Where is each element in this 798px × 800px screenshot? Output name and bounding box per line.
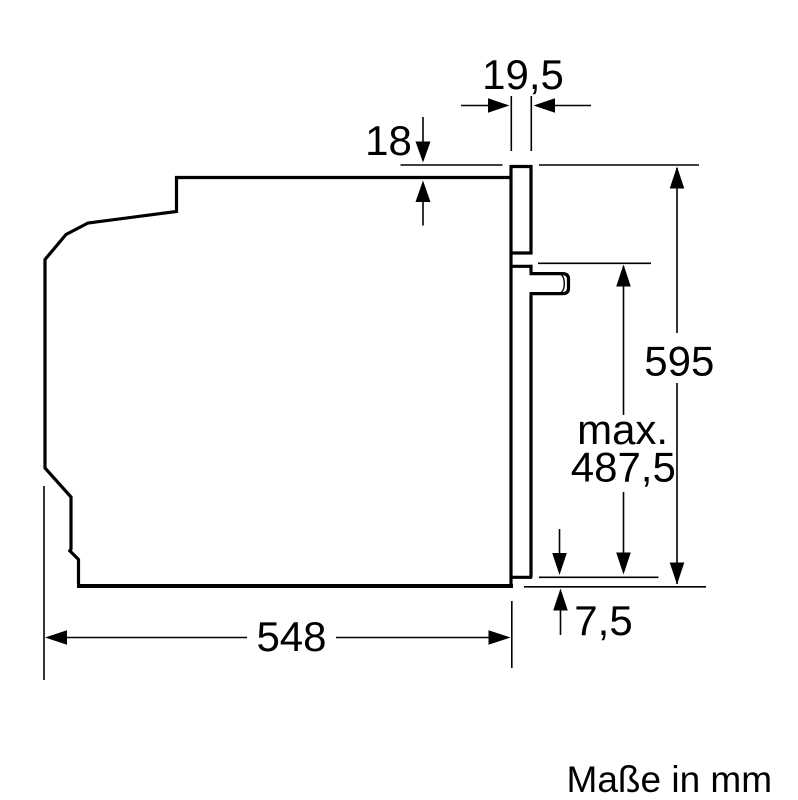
svg-text:Maße in mm: Maße in mm: [567, 759, 773, 800]
svg-text:18: 18: [365, 117, 412, 164]
svg-text:548: 548: [256, 613, 326, 660]
svg-text:7,5: 7,5: [574, 597, 632, 644]
svg-text:595: 595: [644, 338, 714, 385]
svg-text:19,5: 19,5: [482, 51, 564, 98]
svg-text:487,5: 487,5: [571, 444, 676, 491]
